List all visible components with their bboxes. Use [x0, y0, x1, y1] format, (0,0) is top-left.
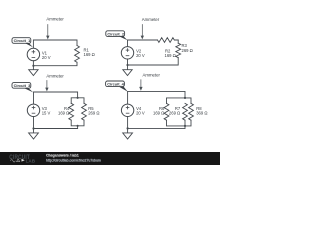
wire top rail C2	[128, 40, 158, 47]
svg-text:20 V: 20 V	[136, 111, 145, 116]
voltage source V3	[27, 104, 39, 116]
ammeter arrow	[141, 25, 144, 40]
svg-text:269 Ω: 269 Ω	[88, 111, 99, 116]
wire V2 bottom	[127, 59, 129, 65]
wire V4 bottom	[127, 117, 129, 129]
svg-text:http://circuitlab.com/c6nc27u7: http://circuitlab.com/c6nc27u7sbum	[46, 158, 101, 162]
ammeter arrow	[46, 25, 49, 40]
resistor R4	[69, 103, 74, 120]
wire V1 bottom	[32, 61, 34, 66]
V2 value label	[136, 49, 145, 59]
junction C4 top tee	[184, 97, 186, 99]
svg-text:369 Ω: 369 Ω	[196, 111, 207, 116]
badge Circuit_3	[12, 83, 33, 93]
footer text	[46, 153, 101, 162]
R1 value label	[84, 47, 95, 57]
wire R3 top	[177, 40, 179, 43]
junction C3 ground	[32, 127, 34, 129]
CircuitLab logo	[9, 154, 35, 163]
wire bottom bar C4	[167, 120, 192, 126]
wire top rail C3	[34, 92, 78, 104]
wire bottom bar C3	[71, 120, 84, 126]
resistor R8	[189, 103, 194, 120]
R6 value label	[153, 106, 165, 116]
resistor R5	[82, 103, 87, 120]
svg-text:169 Ω: 169 Ω	[165, 53, 176, 58]
svg-text:169 Ω: 169 Ω	[153, 111, 164, 116]
footer bar	[0, 152, 220, 165]
resistor R2	[158, 38, 179, 43]
resistor R7	[183, 103, 188, 120]
wire stub C4	[184, 120, 186, 128]
resistor R3	[176, 43, 181, 57]
junction C3 top tee	[77, 97, 79, 99]
svg-text:269 Ω: 269 Ω	[182, 48, 193, 53]
svg-text:Circuit_2: Circuit_2	[107, 31, 124, 36]
ground C4	[123, 128, 133, 139]
junction C2	[126, 64, 128, 66]
junction C4 bottom tee	[184, 125, 186, 127]
svg-text:169 Ω: 169 Ω	[84, 52, 95, 57]
wire top bar C4	[167, 98, 192, 104]
junction C1	[32, 65, 34, 67]
svg-text:Circuit_3: Circuit_3	[14, 83, 31, 88]
V4 value label	[136, 106, 145, 116]
wire bottom rail C3	[34, 128, 78, 130]
svg-text:Circuit_1: Circuit_1	[14, 38, 31, 43]
R2 value label	[165, 48, 176, 58]
svg-text:Cheganswers / lab1: Cheganswers / lab1	[46, 153, 79, 157]
wire bottom rail C1	[33, 62, 77, 65]
V3 value label	[42, 106, 51, 116]
R3 value label	[182, 43, 193, 53]
svg-text:LAB: LAB	[26, 158, 36, 163]
R4 value label	[58, 106, 70, 116]
svg-text:15 V: 15 V	[42, 111, 51, 116]
ground C2	[123, 65, 132, 76]
resistor R1	[75, 46, 80, 63]
svg-text:20 V: 20 V	[42, 55, 51, 60]
badge Circuit_4	[106, 81, 128, 92]
wire top rail C4	[128, 91, 185, 104]
resistor R6	[164, 103, 169, 120]
V1 value label	[42, 50, 51, 60]
wire stub C3	[77, 126, 79, 129]
junction C4 ground	[127, 127, 129, 129]
svg-text:Ammeter: Ammeter	[46, 74, 64, 79]
junction C3 bottom tee	[77, 125, 79, 127]
svg-text:20 V: 20 V	[136, 53, 145, 58]
voltage source V4	[121, 104, 133, 116]
badge Circuit_1	[12, 38, 33, 48]
ground C3	[29, 129, 39, 140]
svg-text:Ammeter: Ammeter	[143, 73, 161, 78]
R5 value label	[88, 106, 99, 116]
wire top bar C3	[71, 98, 84, 104]
wire V3 bottom	[33, 117, 35, 129]
ammeter arrow	[139, 80, 142, 91]
voltage source V1	[27, 48, 39, 60]
badge Circuit_2	[106, 31, 128, 41]
wire bottom rail C2	[128, 58, 179, 65]
wire top rail C1	[33, 40, 77, 48]
svg-text:269 Ω: 269 Ω	[169, 111, 180, 116]
ammeter arrow	[45, 81, 48, 92]
svg-text:Ammeter: Ammeter	[142, 17, 160, 22]
R8 value label	[196, 106, 207, 116]
svg-text:Circuit_4: Circuit_4	[107, 82, 124, 87]
voltage source V2	[121, 47, 133, 59]
wire bottom rail C4	[128, 127, 185, 129]
ground C1	[29, 66, 38, 76]
svg-text:169 Ω: 169 Ω	[58, 111, 69, 116]
R7 value label	[169, 106, 181, 116]
svg-text:Ammeter: Ammeter	[46, 17, 64, 22]
